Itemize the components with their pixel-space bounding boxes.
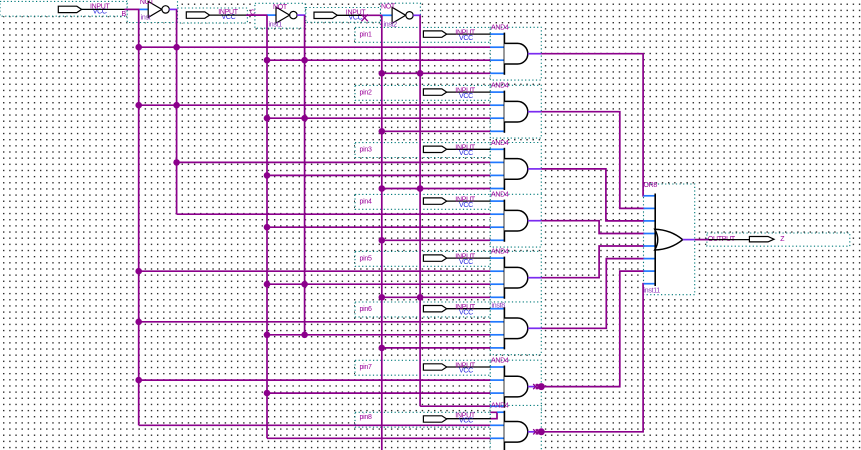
selection box input pin6 [355, 302, 490, 317]
selection box NOT inst [127, 0, 177, 22]
svg-text:OR8: OR8 [644, 182, 658, 189]
label inst8 [492, 303, 506, 310]
selection box input pin7 [355, 360, 490, 375]
svg-text:NOT: NOT [381, 3, 396, 10]
label Z [780, 236, 785, 243]
NOT gate inst [148, 1, 169, 17]
svg-text:VCC: VCC [459, 93, 473, 100]
svg-text:AND4: AND4 [491, 25, 509, 32]
label pin6 [360, 306, 372, 313]
wire AND5 output to OR8 input 5 [528, 246, 645, 278]
input pin3 tag [423, 146, 446, 152]
label INPUT (pin7) [455, 362, 476, 369]
svg-text:pin7: pin7 [360, 364, 372, 371]
wire v3 net C vertical [266, 15, 268, 438]
label VCC (D) [349, 14, 363, 21]
selection box AND4 gate 2 [490, 85, 541, 138]
wire AND gate 3 input 2 from v2 [173, 159, 490, 166]
wire AND gate 6 input 3 from v3 [264, 332, 491, 339]
svg-text:AND4: AND4 [491, 249, 509, 256]
svg-text:B: B [122, 11, 127, 18]
wire AND gate 5 input 2 from v1 [135, 268, 490, 275]
svg-text:pin8: pin8 [360, 414, 372, 421]
AND4 gate 7 (U9) [490, 366, 528, 408]
selection box AND4 gate 5 [490, 251, 541, 304]
wire C blue into NOT [267, 14, 276, 16]
wire AND gate 3 input 4 from v5 [379, 185, 491, 192]
wire AND4 output to OR8 input 4 [528, 221, 645, 234]
input pin4 tag [423, 198, 446, 204]
wire NOT inst2 output stub [413, 14, 421, 16]
AND4 gate 3 (U5) [490, 148, 528, 190]
wire pin2 to AND [446, 91, 491, 93]
label inst11 [644, 288, 661, 295]
label AND4 gate 5 [491, 249, 509, 256]
AND4 gate 8 (U10) [490, 411, 528, 450]
wire AND gate 1 input 2 from v1 [135, 44, 490, 51]
label AND4 gate 7 [491, 358, 509, 365]
svg-text:VCC: VCC [459, 368, 473, 375]
wire NOT inst1 output stub [297, 14, 305, 16]
label inst [141, 15, 151, 22]
svg-text:inst2: inst2 [384, 22, 398, 29]
svg-text:inst1: inst1 [269, 21, 283, 28]
wire AND gate 4 input 3 from v3 [264, 224, 491, 231]
input pin8 tag [423, 416, 446, 422]
wire AND gate 5 input 3 from v3 [264, 281, 491, 288]
selection box input pin2 [355, 85, 490, 100]
selection box input pin8 [355, 412, 490, 427]
wire AND gate 7 input 4 from v6 [420, 405, 490, 407]
selection box NOT inst1 [255, 3, 305, 28]
wire B blue into NOT [140, 8, 149, 10]
svg-text:VCC: VCC [459, 202, 473, 209]
selection box input pin3 [355, 143, 490, 158]
wire AND gate 7 input 2 from v1 [135, 377, 490, 384]
wire AND gate 4 input 4 from v5 [379, 237, 491, 244]
selection box AND4 gate 6 [490, 302, 541, 355]
AND4 gate 1 (U3) [490, 33, 528, 75]
wire pin1 to AND [446, 33, 491, 35]
svg-text:pin2: pin2 [360, 89, 372, 96]
wire pin5 to AND [446, 257, 491, 259]
node label B [122, 11, 127, 18]
wire OR8 output purple [695, 239, 709, 241]
selection box input pin D [306, 8, 381, 23]
output pin Z tag [749, 237, 774, 242]
label pin1 [360, 31, 372, 38]
svg-text:inst: inst [141, 15, 151, 22]
label VCC (pin1) [459, 35, 473, 42]
label VCC (pin3) [459, 150, 473, 157]
input pin1 tag [423, 31, 446, 37]
label AND4 gate 8 [491, 403, 509, 410]
label pin5 [360, 255, 372, 262]
label VCC (pin7) [459, 368, 473, 375]
label NOT (inst2) [381, 3, 396, 10]
wire C purple [246, 14, 268, 16]
wire pin4 to AND [446, 200, 491, 202]
wire AND gate 1 input 4 from v5 [379, 70, 491, 77]
wire pin8 jog purple [490, 412, 497, 418]
label INPUT (pin5) [455, 254, 476, 261]
label pin8 [360, 414, 372, 421]
wire B black [81, 8, 125, 10]
svg-text:pin5: pin5 [360, 255, 372, 262]
label pin4 [360, 198, 372, 205]
label VCC (pin4) [459, 202, 473, 209]
selection box NOT inst2 [381, 3, 421, 28]
wire pin7 to AND [446, 366, 491, 368]
input pin C tag [186, 12, 209, 18]
svg-text:VCC: VCC [459, 150, 473, 157]
label VCC (pin6) [459, 309, 473, 316]
wire v6 net notD vertical [419, 15, 421, 406]
label INPUT (pin4) [455, 197, 476, 204]
wire pin6 to AND [446, 308, 491, 310]
label INPUT (C) [218, 9, 239, 16]
wire v4 net notC vertical [304, 15, 306, 335]
label INPUT (pin6) [455, 304, 476, 311]
label AND4 gate 3 [491, 140, 509, 147]
OR8 gate inst11 [644, 194, 683, 287]
wire C black [210, 14, 246, 16]
wire AND3 output to OR8 input 3 [528, 169, 645, 221]
label INPUT (pin2) [455, 88, 476, 95]
wire AND gate 7 input 3 from v3 [264, 390, 491, 397]
wire OR8 output stub violet [683, 239, 695, 241]
wire AND gate 5 input 4 from v5 [379, 294, 491, 301]
wire AND1 output to OR8 input 1 [528, 54, 645, 196]
label VCC (pin2) [459, 93, 473, 100]
label pin3 [360, 147, 372, 154]
svg-text:NOT: NOT [273, 4, 288, 11]
input pin2 tag [423, 89, 446, 95]
svg-text:VCC: VCC [459, 35, 473, 42]
wire pin3 to AND [446, 148, 491, 150]
wire v2 net notB vertical [176, 9, 178, 214]
label OR8 [644, 182, 658, 189]
svg-text:AND4: AND4 [491, 140, 509, 147]
input pin5 tag [423, 255, 446, 261]
wire AND8 output to OR8 input 8 [528, 284, 645, 436]
wire AND gate 1 input 3 from v3 [264, 57, 491, 64]
label VCC (pin5) [459, 259, 473, 266]
label INPUT (pin3) [455, 145, 476, 152]
label VCC (C) [222, 14, 236, 21]
wire AND7 output to OR8 input 7 [528, 271, 645, 390]
label NOT (inst1) [273, 4, 288, 11]
label INPUT (pin1) [455, 30, 476, 37]
wire D blue into NOT [382, 14, 392, 16]
label pin7 [360, 364, 372, 371]
label NOT (inst) [140, 0, 155, 6]
selection box OR8 inst11 [644, 184, 695, 295]
node label C [250, 9, 255, 16]
NOT gate inst2 [392, 7, 413, 23]
wire AND gate 4 input 2 from v2 [177, 213, 491, 215]
wire AND gate 8 input 3 from v3 [267, 437, 490, 439]
wire AND gate 6 input 2 from v1 [135, 319, 490, 326]
input pin D tag [314, 12, 337, 18]
svg-text:AND4: AND4 [491, 403, 509, 410]
label AND4 gate 1 [491, 25, 509, 32]
selection box input pin5 [355, 251, 490, 266]
selection box AND4 gate 1 [490, 27, 541, 80]
AND4 gate 5 (U7) [490, 257, 528, 299]
label INPUT (pin8) [455, 412, 476, 419]
wire AND gate 2 input 2 from v1 [135, 102, 490, 109]
selection box input pin B [0, 1, 127, 16]
label OUTPUT [708, 236, 736, 243]
wire AND gate 2 input 3 from v3 [264, 115, 491, 122]
wire D black [337, 14, 363, 16]
svg-text:pin6: pin6 [360, 306, 372, 313]
wire to output pin black [708, 239, 749, 241]
wire v1 net B vertical [138, 9, 140, 425]
wire NOT inst output stub [169, 8, 177, 10]
label AND4 gate 4 [491, 192, 509, 199]
svg-text:VCC: VCC [459, 309, 473, 316]
label VCC (B) [93, 9, 107, 16]
input pin B tag [58, 6, 81, 12]
selection box AND4 gate 7 [490, 360, 541, 413]
wire pin8 black [446, 418, 491, 420]
label INPUT (D) [346, 9, 367, 16]
wire v5 net D vertical [381, 15, 383, 450]
svg-text:AND4: AND4 [491, 83, 509, 90]
NOT gate inst1 [276, 7, 297, 23]
svg-text:inst11: inst11 [644, 288, 661, 295]
AND4 gate 6 (U8) [490, 307, 528, 349]
svg-text:NOT: NOT [140, 0, 155, 6]
svg-text:pin4: pin4 [360, 198, 372, 205]
svg-text:pin3: pin3 [360, 147, 372, 154]
selection box AND4 gate 4 [490, 194, 541, 247]
wire AND2 output to OR8 input 2 [528, 112, 645, 209]
selection box AND4 gate 8 [490, 405, 541, 450]
AND4 gate 4 (U6) [490, 200, 528, 242]
connection x marker [361, 14, 367, 21]
selection box input pin1 [355, 27, 490, 42]
label inst2 [384, 22, 398, 29]
svg-text:VCC: VCC [459, 259, 473, 266]
svg-text:pin1: pin1 [360, 31, 372, 38]
selection box output pin Z [707, 233, 850, 246]
wire AND gate 8 input 2 from v1 [139, 424, 491, 426]
selection box input pin4 [355, 194, 490, 209]
AND4 gate 2 (U4) [490, 91, 528, 133]
wire AND gate 3 input 3 from v3 [264, 172, 491, 179]
label VCC (pin8) [459, 418, 473, 425]
label inst1 [269, 21, 283, 28]
selection box AND4 gate 3 [490, 143, 541, 196]
selection box input pin C [178, 8, 248, 23]
svg-text:VCC: VCC [459, 418, 473, 425]
svg-text:inst8: inst8 [492, 303, 506, 310]
svg-text:AND4: AND4 [491, 192, 509, 199]
wire AND gate 6 input 4 from v5 [379, 345, 491, 352]
wire B purple [125, 8, 140, 10]
label pin2 [360, 89, 372, 96]
label INPUT (B) [90, 4, 111, 11]
wire AND6 output to OR8 input 6 [528, 259, 645, 329]
wire D purple [364, 14, 383, 16]
input pin6 tag [423, 306, 446, 312]
wire AND gate 2 input 4 from v5 [379, 128, 491, 135]
label AND4 gate 2 [491, 83, 509, 90]
input pin7 tag [423, 364, 446, 370]
svg-text:AND4: AND4 [491, 358, 509, 365]
